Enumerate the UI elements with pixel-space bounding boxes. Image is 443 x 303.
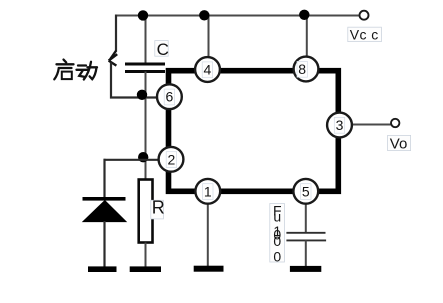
wire top supply bus (116, 15, 359, 17)
ground under C2 (290, 266, 321, 272)
svg-text:1: 1 (204, 183, 212, 199)
wire C2 to ground (305, 240, 307, 266)
svg-text:R: R (152, 198, 165, 218)
svg-text:Vc c: Vc c (350, 26, 379, 42)
ground under R (130, 266, 161, 272)
svg-text:8: 8 (298, 61, 306, 77)
pin 3 (327, 113, 352, 138)
label qidong (start) hanzi strokes (54, 60, 97, 80)
svg-text:6: 6 (166, 89, 174, 105)
svg-text:C: C (157, 40, 169, 59)
capacitor C plates (125, 64, 165, 72)
svg-text:0: 0 (273, 233, 281, 249)
wire pin1 to ground (207, 204, 209, 266)
wire riser from bus to pin 4 (208, 16, 210, 58)
pin 8 (294, 57, 319, 82)
op-amp U1 IC body (555) thick outline (169, 71, 339, 192)
wire diode to ground (103, 221, 105, 267)
svg-text:2: 2 (168, 151, 176, 167)
node dot on bus at C branch (138, 10, 148, 20)
label C value box (155, 41, 168, 57)
pin 1 (195, 179, 220, 204)
ground under diode (88, 266, 117, 272)
terminal Vcc open circle (360, 11, 369, 20)
wire R to ground (145, 243, 147, 267)
diode VD triangle (83, 201, 126, 222)
node dot on bus at pin8 riser (299, 10, 309, 20)
svg-text:0: 0 (273, 249, 281, 265)
label Vo box (388, 135, 411, 150)
wire left branch down to switch (115, 15, 117, 52)
ground under pin1 (194, 266, 224, 272)
capacitor C2 plates (286, 233, 326, 241)
svg-text:u: u (273, 208, 281, 224)
switch S (start button) (109, 51, 118, 66)
wire C bottom plate down through junctions to resistor (145, 72, 147, 181)
wire switch lower terminal to pin 6 (111, 63, 159, 98)
resistor R body (139, 180, 153, 243)
wire riser from bus to pin 8 (306, 16, 308, 58)
diode VD cathode bar (83, 197, 126, 201)
svg-text:3: 3 (336, 117, 344, 133)
label C2 value 0.01uF vertical (273, 203, 282, 265)
pin 5 (293, 179, 318, 204)
svg-text:5: 5 (302, 183, 310, 199)
pin 6 (157, 84, 182, 109)
svg-text:4: 4 (204, 62, 212, 78)
wire pin5 to capacitor C2 (305, 204, 307, 233)
pin 2 (159, 147, 184, 172)
node dot on bus at pin4 riser (199, 10, 209, 20)
pin 4 (195, 57, 220, 82)
node dot junction C line with pin6 wire (137, 90, 147, 100)
wire pin2 horizontal (104, 159, 159, 161)
label Vcc box (348, 27, 382, 41)
label C2 value box (270, 204, 285, 263)
wire down to diode (103, 159, 105, 198)
svg-text:Vo: Vo (390, 135, 408, 152)
wire pin3 output to terminal (351, 124, 391, 126)
node dot junction R line with pin2 wire (138, 152, 148, 162)
wire vertical from bus to capacitor C (145, 16, 147, 64)
terminal Vo open circle (391, 119, 399, 127)
label R (151, 200, 164, 219)
